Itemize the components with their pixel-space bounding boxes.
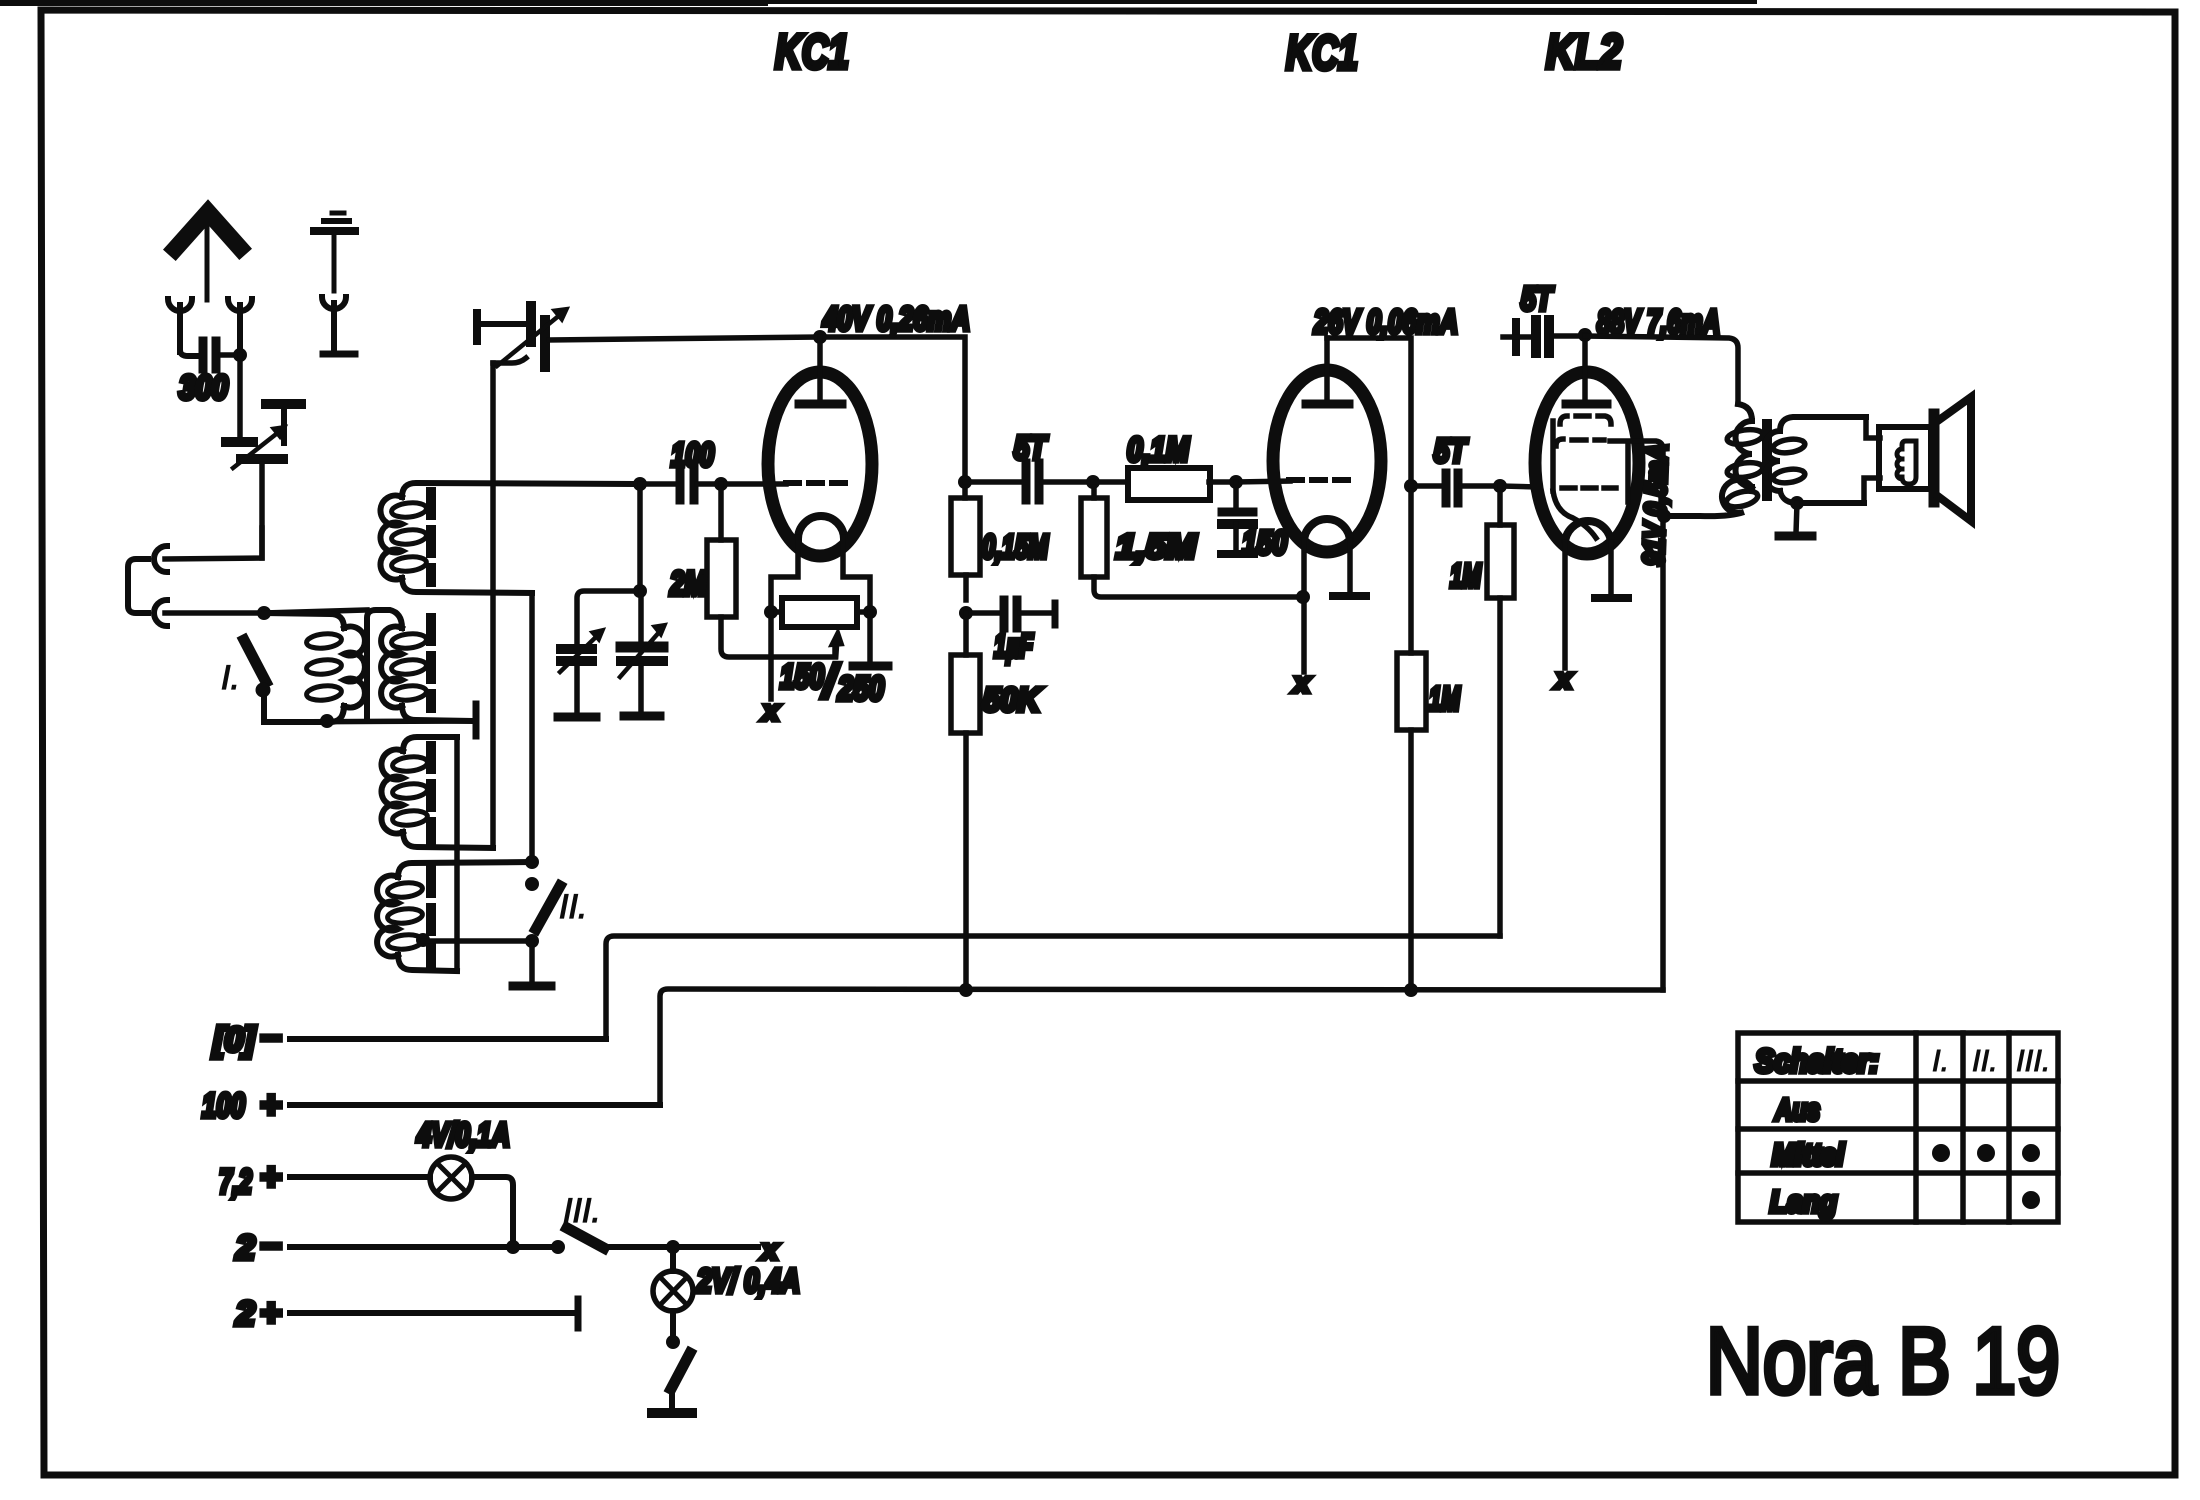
svg-text:x: x [1292,667,1311,698]
speaker horn [1939,397,1971,521]
svg-text:I.: I. [1932,1043,1949,1078]
feedback trimmer capacitor [477,306,568,367]
svg-text:II.: II. [559,888,587,926]
node cathode 2 junction [1296,590,1310,604]
node transformer primary bottom [1657,509,1671,523]
variable tuning capacitor 2 [620,624,666,711]
svg-text:I.: I. [221,659,240,697]
capacitor 1uF [966,600,1055,628]
antenna jack hook right [228,299,252,353]
node 1uF junction [959,606,973,620]
tube 1 grid (dashed) [786,480,854,486]
antenna jack hook left [168,299,192,352]
wire to tuning cap 2 [638,591,644,640]
svg-text:−: − [260,1225,281,1266]
tube 3 cathode arc [1565,521,1611,544]
capacitor 5T (first coupling) [965,463,1093,500]
capacitor 150 [1221,482,1254,554]
phone jack socket lower [154,600,167,626]
wire pickup coil bottom to core coil [264,721,470,722]
node lamp/2- junction [506,1240,520,1254]
output transformer core [1762,424,1772,496]
tube 3 control grid (dashed) [1562,485,1616,491]
wire bus 2 (B+ return) [660,989,1663,1105]
svg-text:300: 300 [179,369,228,407]
output transformer primary [1664,404,1764,516]
node coil D tap [416,933,430,947]
tube 2 cathode arc [1304,519,1350,542]
svg-text:Nora B 19: Nora B 19 [1706,1308,2060,1413]
svg-text:[0]: [0] [212,1021,257,1059]
node lamp switch contact [666,1335,680,1349]
svg-text:2: 2 [235,1295,255,1333]
resistor 2M [707,484,835,657]
wire 40V feed line [549,337,965,498]
svg-text:+: + [260,1084,281,1125]
svg-text:4V/0,1A: 4V/0,1A [416,1116,510,1153]
svg-text:26V 0,06mA: 26V 0,06mA [1313,303,1458,340]
node 88V anode junction [1578,328,1592,342]
svg-text:0,15M: 0,15M [982,528,1049,565]
output transformer secondary [1765,417,1866,503]
wire lamp to switch [670,1311,676,1336]
terminal tick [473,704,480,736]
table dot Mittel III [2022,1144,2040,1162]
wire 7,2+ to dial lamp [290,1174,430,1180]
wire [0]- [290,1036,606,1042]
capacitor 100 [640,468,721,500]
svg-text:5T: 5T [1014,429,1048,466]
svg-text:1M: 1M [1429,680,1461,717]
switch table frame [1738,1033,2058,1222]
resistor 1,5M [1081,482,1303,597]
node switch III contact [551,1240,565,1254]
svg-text:100: 100 [671,436,715,473]
svg-text:III.: III. [563,1192,601,1230]
svg-text:250: 250 [837,670,884,708]
node coil bottom junction [320,714,334,728]
node grid junction left [633,477,647,491]
svg-text:−: − [260,1017,281,1058]
svg-text:150: 150 [1242,524,1288,561]
node bus2 1M junction [1404,983,1418,997]
wire antenna to variable cap [237,355,243,438]
switch II blade [536,886,560,929]
phone jack socket upper [154,546,167,572]
tube 1 KC1 envelope [768,372,872,556]
antenna symbol [175,212,240,300]
wire pot right to ground [867,612,873,661]
resistor 0,1M [1093,468,1236,500]
svg-text:50K: 50K [983,681,1042,718]
svg-text:III.: III. [2016,1043,2050,1078]
switch I contact [256,683,271,698]
svg-text:100: 100 [202,1087,245,1125]
svg-text:x: x [760,1234,779,1265]
wire 26V anode line [1327,338,1411,486]
wire grid lead into tube 3 [1500,486,1540,487]
coil A (antenna secondary) [380,483,640,593]
dial lamp 4V/0,1A [430,1157,472,1199]
tube 3 beam plate left [1550,421,1556,491]
wire junction to 2V lamp [670,1247,676,1271]
coil D (long-wave winding) [377,862,533,971]
tube 3 beam plate right [1625,446,1631,502]
capacitor 5T (tone, at KL2 anode) [1503,320,1584,353]
table dot Lang III [2022,1191,2040,1209]
capacitor 300 [180,341,240,369]
resistor 0,15M [951,498,980,600]
tube 3 anode [1566,335,1607,404]
filament terminal bar tube 3 [1595,594,1628,602]
variable capacitor (antenna trimmer) [226,404,301,558]
svg-text:2M: 2M [669,565,706,603]
variable tuning capacitor 1 [560,629,604,712]
table dot Mittel II [1977,1144,1995,1162]
wire to tuning cap 1 [577,591,640,643]
svg-text:2V/ 0,4A: 2V/ 0,4A [696,1262,800,1299]
tube 2 anode [1306,338,1349,404]
ground tuning cap 1 [558,713,596,722]
node pot left [764,605,778,619]
node bus2 50K junction [959,983,973,997]
table dot Mittel I [1932,1144,1950,1162]
tube 3 KL2 envelope [1535,372,1639,554]
switch blade (lamp ground) [671,1353,690,1389]
svg-text:+: + [260,1292,281,1333]
pickup jack bracket wire [128,559,148,613]
svg-text:1M: 1M [1450,557,1482,594]
wire coil C to coil D series link [454,737,460,971]
tube 3 suppressor curve [1553,491,1596,538]
wire coil D tap to switch II [423,938,532,944]
svg-text:+: + [260,1156,281,1197]
wire coil A bottom down to switch II [529,593,535,862]
node antenna junction [233,348,247,362]
svg-text:KC1: KC1 [1286,27,1358,80]
svg-text:40V 0,26mA: 40V 0,26mA [822,300,970,337]
tube 1 cathode arc [798,516,844,539]
tube 2 grid (dashed) [1289,477,1358,483]
wire blade to ground [669,1392,675,1410]
tube 3 screen grid 1 (dashed hooks) [1560,416,1611,424]
iron core dashed line [426,492,436,966]
wiper arrow into potentiometer [836,642,837,657]
potentiometer 150/250 [771,598,870,627]
svg-text:7,2: 7,2 [219,1163,252,1201]
node secondary ground junction [1790,496,1804,510]
node grid/2M junction [714,477,728,491]
svg-text:Aus: Aus [1774,1092,1820,1127]
wire 88V to output transformer [1585,336,1738,404]
ground tuning cap 2 [624,712,660,721]
resistor 50K [951,613,980,990]
svg-text:x: x [1554,663,1573,694]
speaker magnet box [1879,427,1931,489]
svg-text:Lang: Lang [1770,1184,1837,1219]
tube 3 cathode legs [1565,542,1611,668]
wire switch III to x [607,1244,758,1250]
svg-text:2: 2 [235,1229,255,1267]
svg-text:KL2: KL2 [1546,26,1622,79]
node tuning caps junction [633,584,647,598]
coil C (tuning winding) [381,737,493,848]
node 40V anode junction [813,330,827,344]
node anode load junction [958,475,972,489]
svg-text:Mittel: Mittel [1772,1137,1845,1172]
switch III blade [567,1228,604,1248]
wire trimmer line down to coil C [490,363,496,848]
wire secondary to speaker [1864,417,1880,503]
wire pot left to x terminal [768,612,774,699]
wire grid lead into tube 1 [721,481,786,487]
svg-text:Schalter:: Schalter: [1755,1043,1879,1079]
filament terminal bar tube 2 [1333,592,1366,600]
wire screen grid lead [1610,441,1663,990]
coil B (aerial primary) [367,610,470,721]
resistor 1M (grid leak tube 3) [1487,486,1514,936]
resistor 1M (anode bleeder) [1397,486,1426,990]
node grid 2 junction [1229,475,1243,489]
node 2V lamp junction [666,1240,680,1254]
wire 100+ [290,1102,660,1108]
wire 2- [290,1244,558,1250]
wire upper jack to tuning cap [165,528,262,559]
switch I blade [244,640,266,682]
node switch II upper [525,855,539,869]
earth terminal symbol [314,213,355,354]
wire lamp to switch III [472,1177,513,1246]
switch II open contact [525,877,539,891]
node grid 3 junction [1493,479,1507,493]
svg-text:91V 0,5mA: 91V 0,5mA [1638,443,1674,566]
svg-text:x: x [761,695,780,726]
svg-text:150: 150 [780,658,824,696]
speaker voice coil [1897,441,1916,484]
ground lamp switch [652,1408,692,1418]
wire lower jack to coil II top [165,610,367,613]
tube 2 KC1 envelope [1273,370,1381,552]
wire 2+ [290,1310,573,1316]
svg-text:0,1M: 0,1M [1127,431,1190,469]
node tube2 anode coupling [1404,479,1418,493]
ground (chassis) [513,982,551,991]
pickup coil L1 (with switch I) [264,613,365,722]
capacitor 5T (second coupling) [1411,473,1500,503]
pilot lamp 2V/0,4A [653,1271,693,1311]
node pot right [863,605,877,619]
wire switch II to ground [529,941,535,983]
ground pot [853,662,888,671]
wire secondary to ground [1796,503,1797,533]
wire grid lead into tube 2 [1236,481,1290,482]
wire bus 1 (grid return) [606,936,1500,1039]
node coupling junction [1086,475,1100,489]
tube 1 cathode legs [771,537,870,604]
tube 1 anode [799,337,842,404]
svg-text:1µF: 1µF [994,627,1034,664]
svg-text:5T: 5T [1521,280,1554,317]
ground speaker [1779,532,1812,541]
tube 3 screen grid 2 (dashed hooks) [1556,439,1604,446]
node switch II lower [525,934,539,948]
speaker diaphragm bar [1929,414,1940,502]
svg-text:5T: 5T [1434,432,1468,469]
svg-text:KC1: KC1 [775,26,849,79]
node jack/coil junction [257,606,271,620]
tube 2 cathode legs [1304,540,1350,672]
wire grid junction down to tuning caps [637,484,643,591]
terminal bar 2+ [575,1299,582,1328]
svg-text:1,5M: 1,5M [1116,528,1197,566]
svg-text:II.: II. [1972,1043,1998,1078]
